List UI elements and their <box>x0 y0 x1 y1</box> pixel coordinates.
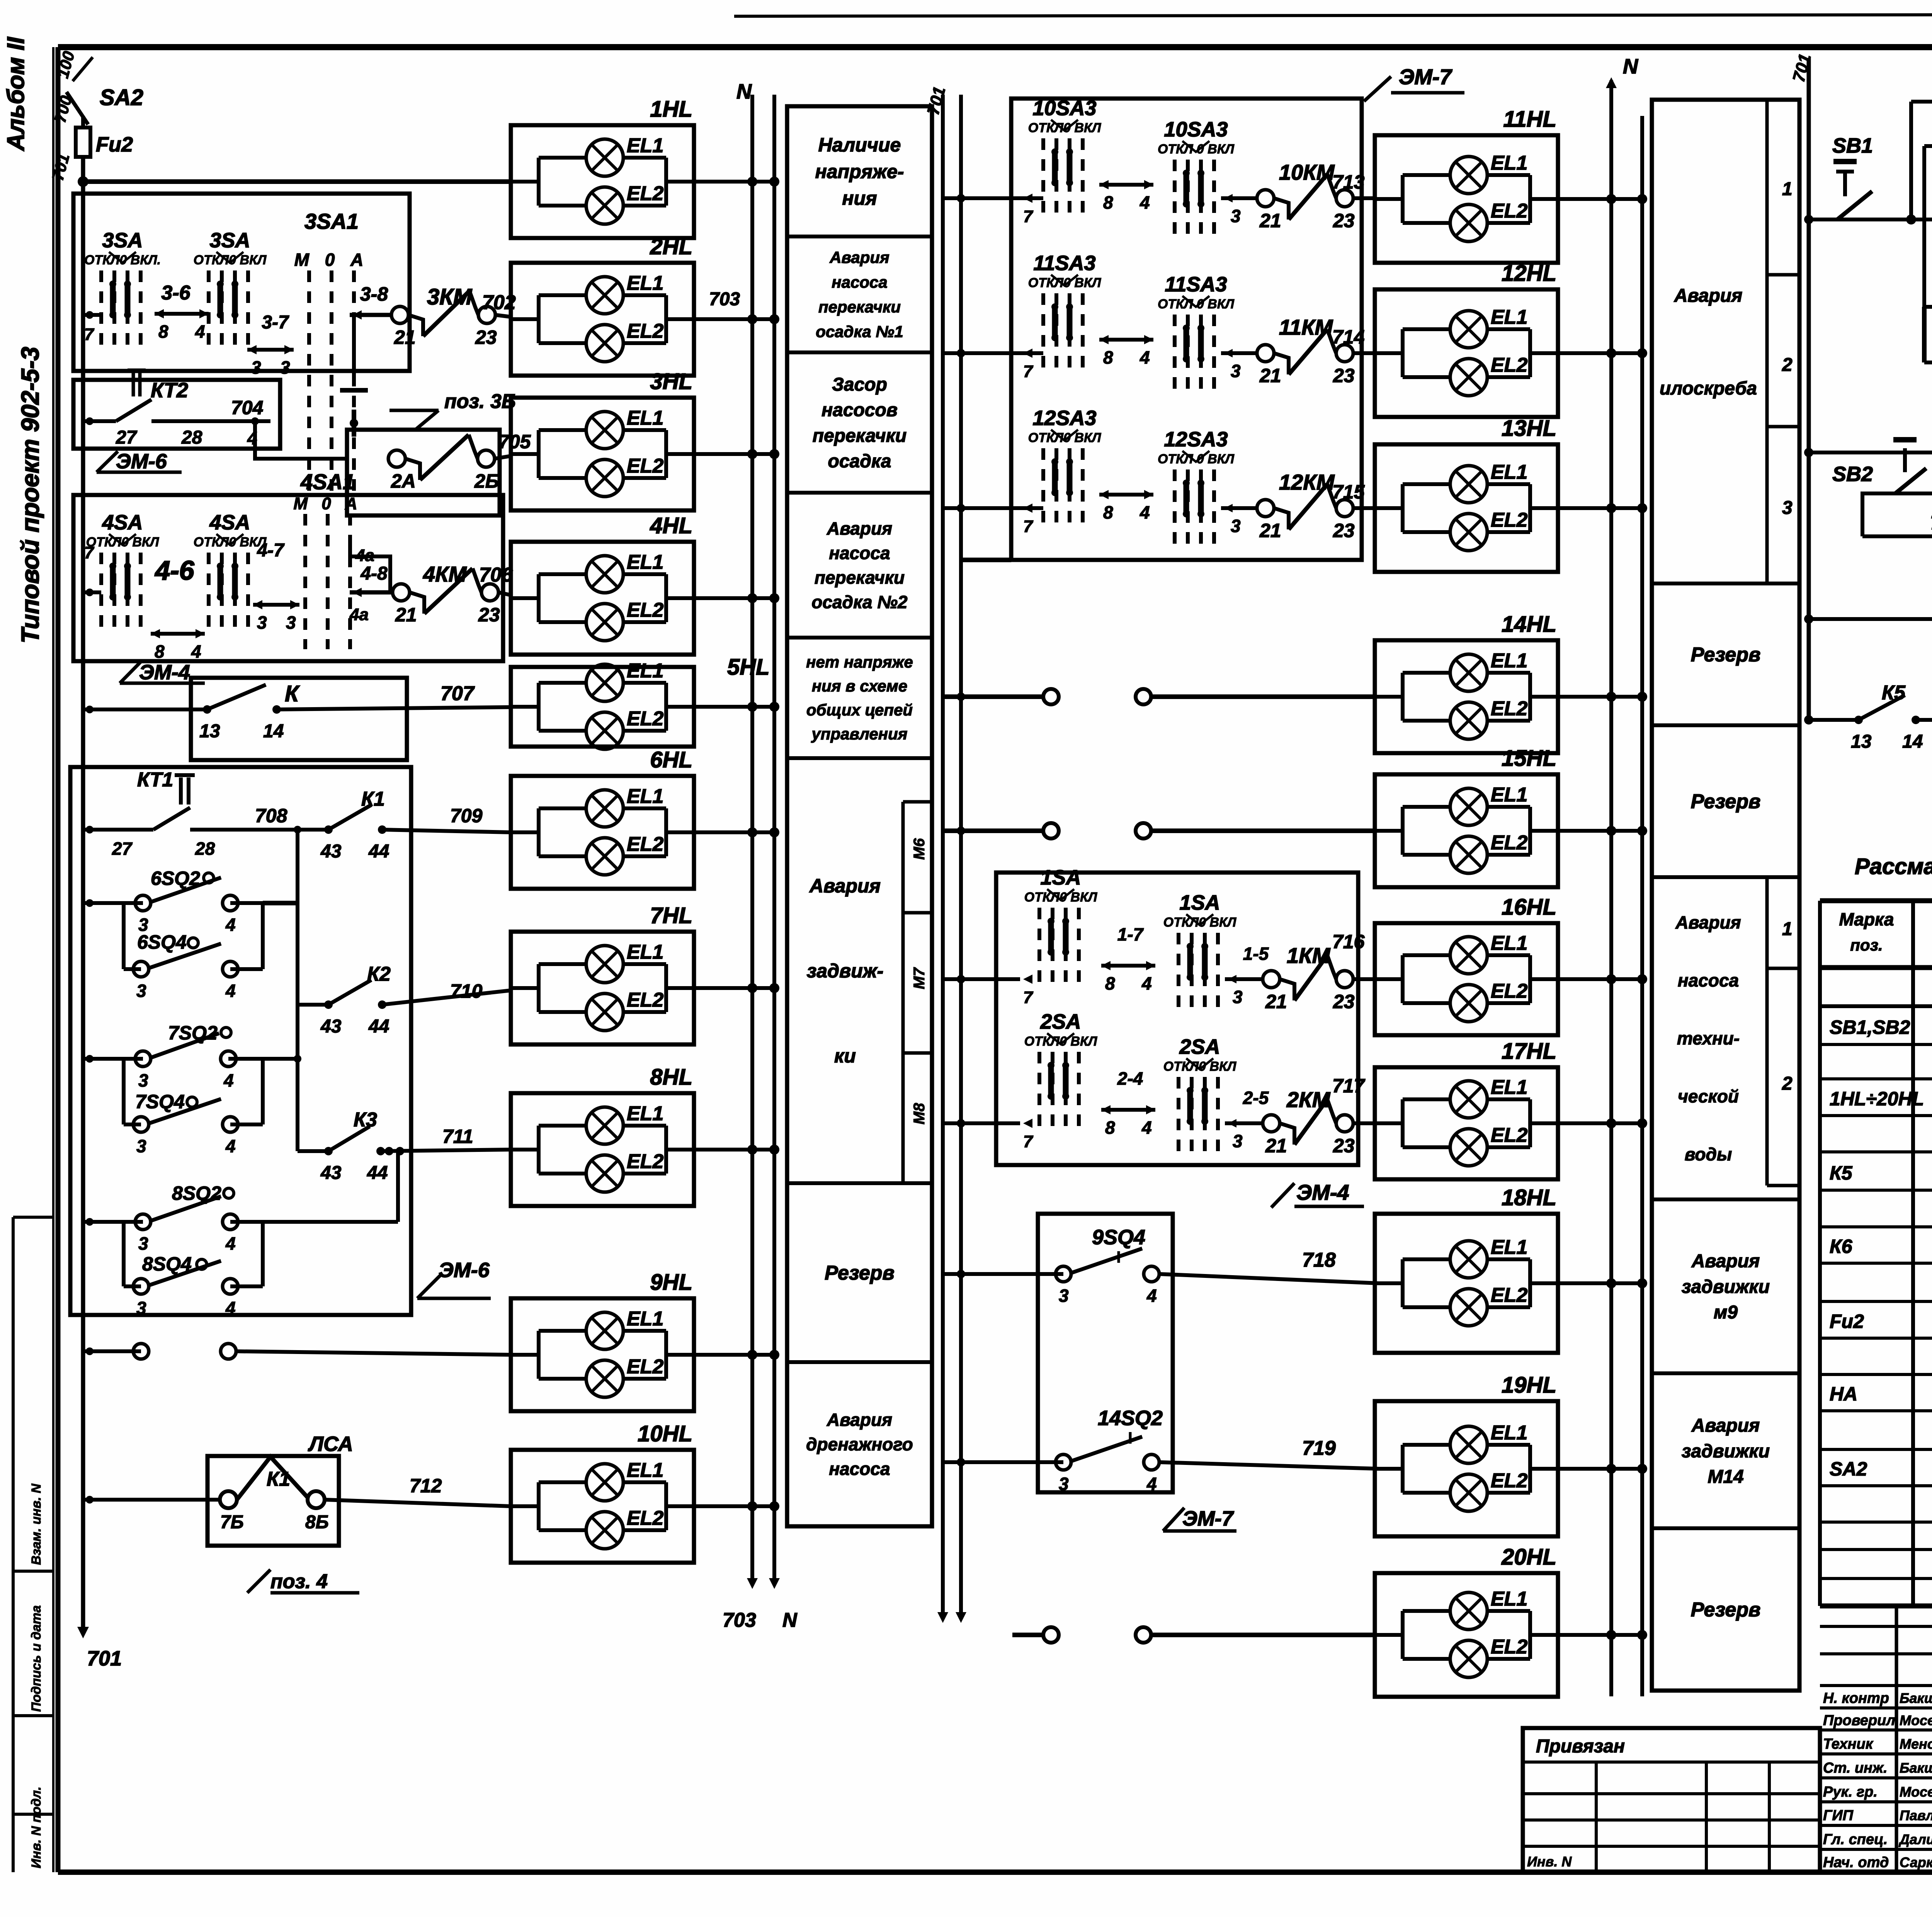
svg-text:EL1: EL1 <box>1491 1588 1527 1610</box>
svg-text:EL1: EL1 <box>1491 784 1527 806</box>
svg-text:2-4: 2-4 <box>1117 1068 1143 1089</box>
svg-text:N: N <box>1623 55 1638 78</box>
svg-text:Резерв: Резерв <box>825 1262 895 1284</box>
svg-text:EL2: EL2 <box>1491 354 1527 376</box>
svg-text:Авария: Авария <box>809 875 881 897</box>
svg-text:2А: 2А <box>391 470 416 492</box>
svg-text:4: 4 <box>1146 1474 1157 1494</box>
svg-text:13: 13 <box>199 721 220 742</box>
svg-text:перекачки: перекачки <box>815 567 905 587</box>
svg-text:SA2: SA2 <box>100 85 143 110</box>
svg-text:10КМ: 10КМ <box>1279 160 1335 184</box>
svg-text:Авария: Авария <box>827 1410 892 1430</box>
svg-text:4: 4 <box>191 641 201 662</box>
svg-text:8: 8 <box>1103 192 1113 213</box>
svg-text:EL1: EL1 <box>627 660 663 682</box>
svg-text:3SA: 3SA <box>209 229 250 252</box>
svg-text:27: 27 <box>116 427 138 448</box>
svg-text:715: 715 <box>1332 481 1365 503</box>
svg-text:Инв. N подл.: Инв. N подл. <box>29 1786 44 1868</box>
svg-text:общих цепей: общих цепей <box>806 701 913 719</box>
svg-text:4: 4 <box>223 1070 234 1090</box>
svg-text:поз.: поз. <box>1850 936 1883 954</box>
svg-text:ОТКЛ0 ВКЛ: ОТКЛ0 ВКЛ <box>1028 121 1101 135</box>
svg-text:2SA: 2SA <box>1179 1035 1220 1058</box>
svg-text:8: 8 <box>1105 1118 1115 1138</box>
svg-text:43: 43 <box>320 1016 342 1037</box>
svg-text:712: 712 <box>410 1475 442 1497</box>
svg-text:3: 3 <box>136 1136 146 1156</box>
svg-text:3-8: 3-8 <box>360 283 388 305</box>
svg-text:EL1: EL1 <box>1491 152 1527 174</box>
svg-text:3: 3 <box>1059 1474 1069 1494</box>
svg-text:701: 701 <box>87 1647 122 1670</box>
svg-text:7: 7 <box>1023 1132 1034 1151</box>
svg-text:ОТКЛ0 ВКЛ: ОТКЛ0 ВКЛ <box>1024 890 1097 905</box>
svg-text:21: 21 <box>1265 1135 1287 1157</box>
svg-text:703: 703 <box>709 289 740 310</box>
svg-text:SA2: SA2 <box>1830 1458 1867 1480</box>
svg-text:3SA1: 3SA1 <box>304 209 359 233</box>
svg-text:илоскреба: илоскреба <box>1660 378 1757 399</box>
svg-text:4а: 4а <box>349 605 369 624</box>
svg-text:Авария: Авария <box>1675 912 1741 932</box>
svg-text:3: 3 <box>138 1070 148 1090</box>
svg-text:3: 3 <box>136 1298 146 1318</box>
svg-text:ОТКЛ0 ВКЛ: ОТКЛ0 ВКЛ <box>1028 276 1101 290</box>
svg-text:SB1: SB1 <box>1832 134 1873 157</box>
svg-text:N: N <box>736 80 752 103</box>
svg-text:43: 43 <box>320 841 342 862</box>
svg-text:2SA: 2SA <box>1040 1010 1081 1033</box>
svg-text:717: 717 <box>1332 1075 1366 1097</box>
svg-text:703: 703 <box>723 1609 756 1631</box>
svg-text:НА: НА <box>1830 1383 1857 1405</box>
svg-text:осадка №1: осадка №1 <box>816 323 903 341</box>
svg-text:ОТКЛ0 ВКЛ: ОТКЛ0 ВКЛ <box>86 535 159 549</box>
svg-text:3: 3 <box>136 981 146 1001</box>
svg-text:23: 23 <box>1333 210 1355 231</box>
svg-text:EL1: EL1 <box>1491 461 1527 483</box>
svg-text:EL2: EL2 <box>627 833 663 856</box>
svg-text:К5: К5 <box>1882 682 1906 704</box>
svg-text:21: 21 <box>1265 991 1287 1012</box>
svg-text:8: 8 <box>155 641 165 662</box>
svg-text:28: 28 <box>195 839 215 859</box>
svg-text:EL2: EL2 <box>627 1356 663 1378</box>
svg-text:Меновщикова: Меновщикова <box>1900 1736 1932 1752</box>
svg-text:управления: управления <box>811 725 907 743</box>
svg-text:ОТКЛ0 ВКЛ: ОТКЛ0 ВКЛ <box>194 253 267 267</box>
svg-text:14HL: 14HL <box>1502 612 1556 637</box>
svg-text:716: 716 <box>1332 931 1365 953</box>
svg-text:9HL: 9HL <box>650 1270 692 1295</box>
svg-text:EL1: EL1 <box>1491 932 1527 954</box>
svg-text:16HL: 16HL <box>1502 895 1556 920</box>
svg-text:21: 21 <box>1259 365 1281 386</box>
svg-text:КТ1: КТ1 <box>137 769 173 791</box>
svg-text:5HL: 5HL <box>727 655 770 680</box>
svg-text:15HL: 15HL <box>1502 746 1556 771</box>
svg-text:Рук. гр.: Рук. гр. <box>1823 1784 1878 1800</box>
svg-text:Fu2: Fu2 <box>96 133 133 156</box>
svg-text:4SA1: 4SA1 <box>300 469 355 494</box>
svg-text:4: 4 <box>1146 1286 1157 1306</box>
svg-text:EL2: EL2 <box>627 599 663 621</box>
svg-text:ЛСА: ЛСА <box>308 1432 353 1456</box>
svg-text:710: 710 <box>450 980 483 1002</box>
svg-text:44: 44 <box>368 841 389 862</box>
svg-text:4: 4 <box>225 981 236 1001</box>
svg-text:3: 3 <box>138 1233 148 1254</box>
svg-text:706: 706 <box>479 564 513 586</box>
svg-text:709: 709 <box>450 805 483 827</box>
svg-text:7: 7 <box>84 325 95 344</box>
svg-text:осадка: осадка <box>828 451 891 472</box>
svg-text:EL1: EL1 <box>627 407 663 429</box>
svg-text:К1: К1 <box>361 788 385 810</box>
svg-text:20HL: 20HL <box>1501 1544 1556 1570</box>
svg-text:ЭМ-4: ЭМ-4 <box>1296 1180 1349 1204</box>
svg-text:3: 3 <box>280 357 290 378</box>
svg-text:7: 7 <box>1023 517 1034 536</box>
svg-text:23: 23 <box>1333 365 1355 386</box>
svg-text:перекачки: перекачки <box>818 298 901 316</box>
svg-text:7: 7 <box>84 543 95 562</box>
svg-text:задвижки: задвижки <box>1682 1277 1770 1297</box>
svg-text:1КМ: 1КМ <box>1287 943 1331 968</box>
svg-text:23: 23 <box>475 327 497 348</box>
svg-text:ОТКЛ 0 ВКЛ: ОТКЛ 0 ВКЛ <box>1158 297 1235 311</box>
svg-text:21: 21 <box>395 604 417 626</box>
svg-text:1-5: 1-5 <box>1243 944 1269 964</box>
svg-text:704: 704 <box>231 397 263 418</box>
svg-text:2: 2 <box>1782 355 1793 375</box>
svg-text:насоса: насоса <box>1678 970 1739 990</box>
svg-text:Проверил: Проверил <box>1823 1712 1895 1728</box>
svg-text:Типовой проект 902-5-3: Типовой проект 902-5-3 <box>16 347 44 643</box>
svg-text:К5: К5 <box>1830 1162 1853 1184</box>
svg-text:713: 713 <box>1332 171 1365 193</box>
svg-text:перекачки: перекачки <box>813 425 906 446</box>
svg-text:2HL: 2HL <box>650 234 692 259</box>
svg-text:4КМ: 4КМ <box>423 562 467 586</box>
svg-text:1: 1 <box>1782 179 1793 199</box>
svg-text:1SA: 1SA <box>1179 891 1220 914</box>
svg-text:714: 714 <box>1332 326 1364 348</box>
svg-text:техни-: техни- <box>1677 1028 1740 1048</box>
svg-text:4-6: 4-6 <box>154 555 194 585</box>
svg-text:ОТКЛ0 ВКЛ: ОТКЛ0 ВКЛ <box>1028 430 1101 445</box>
svg-text:12SA3: 12SA3 <box>1032 407 1096 430</box>
svg-text:4: 4 <box>1141 1118 1152 1138</box>
svg-text:14: 14 <box>1902 731 1923 752</box>
svg-text:8: 8 <box>1103 502 1113 522</box>
svg-text:EL1: EL1 <box>1491 650 1527 672</box>
svg-text:SB2: SB2 <box>1832 463 1873 486</box>
svg-text:Подпись и дата: Подпись и дата <box>29 1605 44 1712</box>
svg-text:осадка №2: осадка №2 <box>811 592 908 612</box>
svg-text:EL2: EL2 <box>1491 832 1527 854</box>
svg-text:насоса: насоса <box>832 273 887 291</box>
svg-text:М 0 А: М 0 А <box>294 250 369 270</box>
svg-text:7: 7 <box>1023 988 1034 1007</box>
svg-text:23: 23 <box>478 604 500 626</box>
svg-text:М8: М8 <box>911 1103 928 1124</box>
svg-text:задвижки: задвижки <box>1682 1441 1770 1461</box>
svg-text:К: К <box>285 681 300 706</box>
svg-text:ния: ния <box>842 187 877 209</box>
svg-text:11КМ: 11КМ <box>1279 315 1333 339</box>
svg-text:3: 3 <box>1231 206 1241 226</box>
svg-text:EL2: EL2 <box>627 182 663 205</box>
svg-text:Бакшеева: Бакшеева <box>1900 1760 1932 1776</box>
svg-text:12HL: 12HL <box>1502 261 1556 286</box>
svg-text:7SQ2: 7SQ2 <box>168 1022 218 1044</box>
svg-text:EL2: EL2 <box>1491 200 1527 222</box>
svg-text:3-7: 3-7 <box>262 312 289 333</box>
svg-text:4: 4 <box>225 1298 236 1318</box>
svg-text:4: 4 <box>1139 347 1150 367</box>
svg-text:N: N <box>782 1609 798 1631</box>
svg-text:23: 23 <box>1333 1135 1355 1157</box>
svg-text:Мосеенко: Мосеенко <box>1900 1712 1932 1728</box>
svg-text:705: 705 <box>498 431 531 452</box>
svg-text:3: 3 <box>286 612 296 633</box>
svg-text:1SA: 1SA <box>1040 866 1081 889</box>
svg-text:11SA3: 11SA3 <box>1165 273 1227 296</box>
svg-text:Мосеенко: Мосеенко <box>1900 1784 1932 1800</box>
svg-text:718: 718 <box>1302 1249 1336 1271</box>
svg-text:27: 27 <box>112 839 133 859</box>
svg-text:2-5: 2-5 <box>1243 1088 1269 1108</box>
svg-text:Далилова: Далилова <box>1898 1831 1932 1847</box>
svg-text:Авария: Авария <box>1691 1251 1760 1272</box>
svg-text:ГИП: ГИП <box>1823 1808 1854 1824</box>
svg-text:EL1: EL1 <box>1491 1076 1527 1099</box>
svg-text:1: 1 <box>1782 919 1793 939</box>
svg-text:Ст. инж.: Ст. инж. <box>1823 1760 1888 1776</box>
svg-text:Fu2: Fu2 <box>1830 1310 1864 1332</box>
svg-text:2Б: 2Б <box>474 470 499 492</box>
svg-text:21: 21 <box>1259 210 1281 231</box>
svg-text:44: 44 <box>368 1016 389 1037</box>
svg-text:4-7: 4-7 <box>257 540 285 561</box>
svg-text:EL1: EL1 <box>627 272 663 294</box>
svg-text:EL1: EL1 <box>627 941 663 963</box>
svg-text:7SQ4: 7SQ4 <box>135 1091 185 1112</box>
svg-text:ческой: ческой <box>1678 1086 1739 1106</box>
svg-text:EL1: EL1 <box>627 1102 663 1125</box>
svg-text:11HL: 11HL <box>1503 107 1556 132</box>
svg-text:EL2: EL2 <box>1491 980 1527 1002</box>
svg-text:ОТКЛ 0 ВКЛ: ОТКЛ 0 ВКЛ <box>1158 452 1235 466</box>
svg-text:13: 13 <box>1851 731 1872 752</box>
svg-text:719: 719 <box>1302 1437 1336 1459</box>
svg-text:7Б: 7Б <box>220 1512 244 1533</box>
svg-text:8: 8 <box>1103 347 1113 367</box>
svg-text:2: 2 <box>1782 1073 1793 1094</box>
svg-text:8HL: 8HL <box>650 1065 692 1090</box>
svg-text:Инв. N: Инв. N <box>1527 1854 1572 1869</box>
svg-text:Гл. спец.: Гл. спец. <box>1823 1831 1888 1847</box>
svg-text:EL2: EL2 <box>1491 1124 1527 1146</box>
svg-text:Авария: Авария <box>827 518 892 538</box>
svg-text:EL1: EL1 <box>627 1459 663 1482</box>
svg-text:EL2: EL2 <box>627 1507 663 1529</box>
svg-text:Наличие: Наличие <box>818 134 901 156</box>
svg-text:9SQ4: 9SQ4 <box>1092 1226 1145 1249</box>
svg-text:м9: м9 <box>1714 1302 1738 1323</box>
svg-text:8: 8 <box>1105 973 1115 993</box>
svg-text:708: 708 <box>255 805 287 827</box>
svg-text:702: 702 <box>482 291 516 314</box>
svg-text:EL1: EL1 <box>627 134 663 157</box>
svg-text:дренажного: дренажного <box>806 1434 913 1454</box>
svg-text:28: 28 <box>181 427 202 448</box>
svg-text:ЭМ-7: ЭМ-7 <box>1399 65 1453 89</box>
svg-text:4SA: 4SA <box>209 511 250 534</box>
svg-text:ОТКЛ0 ВКЛ: ОТКЛ0 ВКЛ <box>1024 1034 1097 1049</box>
svg-text:4: 4 <box>225 1233 236 1254</box>
svg-text:3: 3 <box>1059 1286 1069 1306</box>
svg-text:ЭМ-6: ЭМ-6 <box>439 1259 490 1282</box>
svg-text:6SQ4: 6SQ4 <box>137 931 187 953</box>
svg-text:14SQ2: 14SQ2 <box>1098 1407 1163 1430</box>
svg-text:Авария: Авария <box>1691 1415 1760 1436</box>
svg-text:насосов: насосов <box>821 400 898 420</box>
svg-text:4: 4 <box>1139 192 1150 213</box>
svg-text:М14: М14 <box>1708 1467 1743 1487</box>
svg-text:8: 8 <box>158 321 168 342</box>
svg-text:ОТКЛ0 ВКЛ: ОТКЛ0 ВКЛ <box>194 535 267 549</box>
svg-text:10SA3: 10SA3 <box>1032 97 1096 120</box>
svg-text:23: 23 <box>1333 520 1355 541</box>
svg-text:ЭМ-4: ЭМ-4 <box>139 661 190 684</box>
svg-text:ОТКЛ0 ВКЛ.: ОТКЛ0 ВКЛ. <box>84 253 161 267</box>
svg-text:воды: воды <box>1685 1144 1732 1164</box>
svg-text:12SA3: 12SA3 <box>1164 428 1228 451</box>
svg-text:4-8: 4-8 <box>360 563 388 584</box>
svg-text:Рассматривать совместно с: Рассматривать совместно с листами ЭМ-4, … <box>1855 854 1932 879</box>
svg-text:EL2: EL2 <box>627 1150 663 1173</box>
svg-text:напряже-: напряже- <box>815 161 904 182</box>
svg-text:3: 3 <box>1231 516 1241 536</box>
svg-text:EL1: EL1 <box>1491 1236 1527 1259</box>
svg-text:EL1: EL1 <box>1491 1422 1527 1444</box>
svg-text:SB1,SB2: SB1,SB2 <box>1830 1016 1910 1038</box>
svg-text:К6: К6 <box>1830 1236 1853 1257</box>
svg-text:EL2: EL2 <box>1491 1636 1527 1658</box>
svg-text:Взам. инв. N: Взам. инв. N <box>29 1483 44 1565</box>
svg-text:ОТКЛ 0 ВКЛ: ОТКЛ 0 ВКЛ <box>1158 142 1235 156</box>
svg-text:4: 4 <box>195 321 205 342</box>
svg-text:4: 4 <box>1139 502 1150 522</box>
svg-text:Марка: Марка <box>1839 909 1894 929</box>
svg-text:4HL: 4HL <box>650 513 692 538</box>
svg-text:Резерв: Резерв <box>1691 791 1761 813</box>
svg-text:EL2: EL2 <box>1491 1284 1527 1306</box>
svg-text:задвиж-: задвиж- <box>807 960 883 982</box>
svg-text:1HL÷20HL: 1HL÷20HL <box>1830 1088 1924 1109</box>
svg-text:12КМ: 12КМ <box>1279 470 1335 494</box>
svg-text:ОТКЛ0 ВКЛ: ОТКЛ0 ВКЛ <box>1163 915 1236 930</box>
svg-text:3: 3 <box>1782 498 1793 518</box>
svg-text:ЭМ-6: ЭМ-6 <box>116 450 167 473</box>
svg-text:4SA: 4SA <box>102 511 143 534</box>
svg-text:3: 3 <box>1233 987 1243 1007</box>
svg-text:8Б: 8Б <box>305 1512 329 1533</box>
svg-text:3КМ: 3КМ <box>427 284 473 310</box>
svg-text:21: 21 <box>1259 520 1281 541</box>
svg-text:Альбом II: Альбом II <box>3 36 29 151</box>
svg-text:Резерв: Резерв <box>1691 1599 1761 1621</box>
svg-text:EL1: EL1 <box>627 1308 663 1330</box>
svg-text:EL2: EL2 <box>627 320 663 342</box>
svg-text:Саркисьянц: Саркисьянц <box>1900 1854 1932 1870</box>
svg-text:насоса: насоса <box>829 543 890 563</box>
svg-text:Павлова: Павлова <box>1900 1808 1932 1823</box>
svg-text:3-6: 3-6 <box>161 282 190 304</box>
svg-text:721: 721 <box>1930 512 1932 534</box>
svg-text:EL2: EL2 <box>1491 1470 1527 1492</box>
svg-text:1-7: 1-7 <box>1117 924 1144 944</box>
svg-text:EL2: EL2 <box>627 455 663 477</box>
svg-text:насоса: насоса <box>829 1459 890 1479</box>
svg-text:10SA3: 10SA3 <box>1164 118 1228 141</box>
svg-text:4: 4 <box>1141 973 1152 993</box>
svg-text:711: 711 <box>442 1126 473 1147</box>
svg-text:3: 3 <box>257 612 267 633</box>
svg-text:7HL: 7HL <box>650 903 692 928</box>
svg-text:EL1: EL1 <box>627 785 663 808</box>
svg-text:Привязан: Привязан <box>1536 1736 1625 1757</box>
svg-text:ЭМ-7: ЭМ-7 <box>1182 1507 1235 1530</box>
svg-text:М7: М7 <box>911 967 928 989</box>
svg-text:3: 3 <box>1233 1131 1243 1151</box>
svg-text:3: 3 <box>251 357 261 378</box>
svg-text:ОТКЛ0 ВКЛ: ОТКЛ0 ВКЛ <box>1163 1059 1236 1074</box>
svg-text:10HL: 10HL <box>638 1421 692 1446</box>
svg-text:нет напряже: нет напряже <box>806 653 913 671</box>
svg-text:поз. 4: поз. 4 <box>270 1570 328 1593</box>
svg-text:3: 3 <box>1231 361 1241 381</box>
svg-text:ния в схеме: ния в схеме <box>812 677 907 695</box>
svg-text:К2: К2 <box>367 963 391 985</box>
svg-text:К3: К3 <box>354 1109 377 1131</box>
svg-text:EL2: EL2 <box>1491 509 1527 531</box>
svg-text:2КМ: 2КМ <box>1286 1087 1331 1112</box>
svg-text:19HL: 19HL <box>1502 1373 1556 1398</box>
svg-text:Авария: Авария <box>829 248 889 267</box>
svg-text:поз. 3Б: поз. 3Б <box>444 390 516 413</box>
svg-text:EL2: EL2 <box>1491 697 1527 720</box>
svg-text:Техник: Техник <box>1823 1736 1874 1752</box>
svg-text:7: 7 <box>1023 207 1034 226</box>
svg-text:21: 21 <box>394 327 416 348</box>
svg-text:Нач. отд: Нач. отд <box>1823 1854 1889 1871</box>
svg-text:Резерв: Резерв <box>1691 644 1761 666</box>
svg-text:Н. контр: Н. контр <box>1823 1690 1889 1706</box>
svg-text:Авария: Авария <box>1674 286 1743 306</box>
svg-text:М6: М6 <box>911 838 928 860</box>
svg-text:М 0 А: М 0 А <box>293 494 362 513</box>
svg-text:EL2: EL2 <box>627 708 663 730</box>
svg-text:4: 4 <box>225 1136 236 1156</box>
svg-text:ки: ки <box>834 1045 856 1067</box>
svg-text:3SA: 3SA <box>102 229 143 252</box>
svg-text:43: 43 <box>320 1163 342 1183</box>
